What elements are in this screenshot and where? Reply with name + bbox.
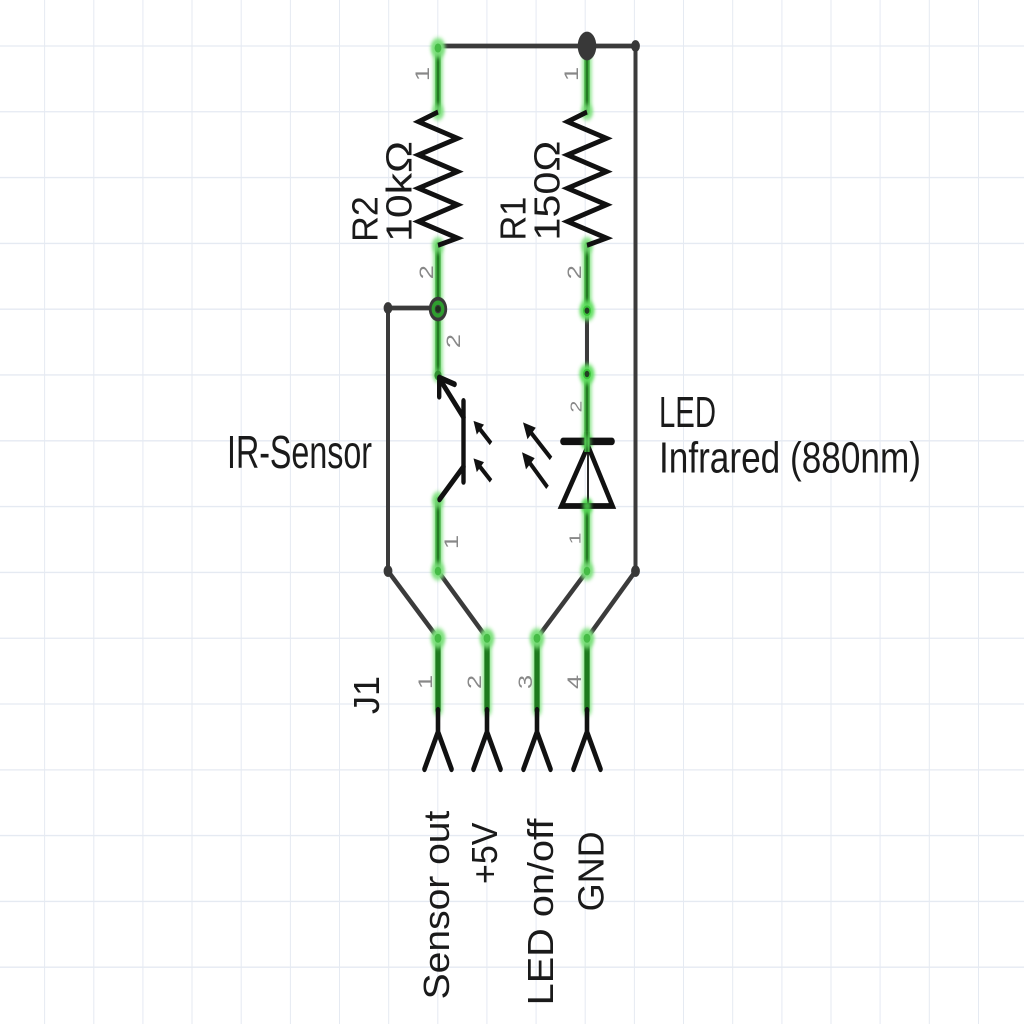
- wire: GND rail diagonal to J1 pin 4: [587, 571, 636, 638]
- wire: sensor-out left vertical: [386, 308, 390, 571]
- svg-text:150Ω: 150Ω: [527, 141, 567, 241]
- glow J1 pin3 top: [530, 628, 545, 648]
- glow R2 pin1 top: [431, 38, 446, 58]
- LED D1 symbol: [562, 432, 613, 512]
- wire centre line LED pin2: [586, 375, 588, 443]
- wire R2 pin1 lead halo: [433, 47, 443, 112]
- wire: right vertical GND rail: [634, 46, 638, 571]
- glow LED bend bottom: [580, 562, 594, 580]
- wire R2 pin1 lead (green net): [435, 47, 440, 112]
- svg-text:1: 1: [412, 67, 433, 81]
- triangle: [562, 446, 613, 506]
- wire: sensor emitter diagonal to J1 pin 2: [438, 571, 487, 638]
- wire J1 pin3 lead halo: [532, 638, 542, 710]
- junction big dot on top rail: [578, 32, 597, 61]
- wire J1 pin4 lead (green net): [584, 638, 589, 710]
- svg-text:+5V: +5V: [465, 822, 505, 884]
- wire J1 pin2 lead halo: [482, 638, 492, 710]
- svg-text:1: 1: [566, 532, 584, 544]
- glow LED cathode pin: [581, 435, 592, 450]
- bendpoint dot left of node A: [384, 302, 393, 314]
- svg-text:3: 3: [515, 675, 536, 689]
- wire node A to sensor pin2 (green net): [435, 309, 440, 375]
- glow at cathode crossing: [582, 436, 591, 448]
- svg-text:Sensor out: Sensor out: [417, 810, 457, 999]
- svg-text:2: 2: [443, 334, 464, 348]
- glow R2 bottom lead: [432, 237, 444, 253]
- collector diagonal: [440, 467, 464, 500]
- resistor R2 zigzag: [419, 112, 458, 245]
- glow LED anode pin: [581, 499, 592, 514]
- green endpoint glows: [431, 38, 595, 648]
- svg-text:2: 2: [567, 401, 585, 413]
- glow J1 pin2 top: [480, 628, 495, 648]
- wire centre line sensor pin1: [437, 500, 439, 571]
- J1 pin 2 connector fork: [474, 710, 501, 769]
- glow junction dot above LED upper: [579, 301, 594, 321]
- svg-text:1: 1: [415, 675, 436, 689]
- svg-text:2: 2: [464, 675, 485, 689]
- wire R2 pin2 lead to node A (green net): [435, 245, 440, 309]
- photon arrows out of LED: [522, 422, 551, 487]
- svg-text:4: 4: [564, 675, 585, 689]
- green net wires (core layer): [438, 47, 587, 710]
- svg-text:J1: J1: [347, 676, 387, 714]
- pin number labels (gray): [412, 67, 585, 689]
- wire J1 pin3 lead (green net): [534, 638, 539, 710]
- wire LED pin1 lead halo: [582, 506, 592, 571]
- resistor R1 zigzag: [568, 112, 607, 245]
- wire: gray segment between junction dots above LED: [585, 311, 589, 374]
- wire sensor pin1 lead (green net): [435, 500, 440, 571]
- svg-text:1: 1: [441, 535, 462, 549]
- svg-text:Infrared (880nm): Infrared (880nm): [659, 434, 921, 483]
- node A junction (dark ring with green centre): [429, 297, 447, 322]
- svg-text:LED on/off: LED on/off: [521, 818, 561, 1005]
- green net wires (dark centre line): [438, 47, 587, 571]
- wire sensor pin2 lead halo: [433, 309, 443, 375]
- glow at anode base crossing: [583, 500, 592, 512]
- wire: sensor-out horizontal stub from node A: [388, 306, 437, 310]
- J1 pin 4 connector fork: [574, 710, 601, 769]
- wire: LED anode diagonal to J1 pin 3: [537, 571, 587, 638]
- J1 pin 1 connector fork: [425, 710, 452, 769]
- wire centre line sensor pin2: [437, 309, 439, 375]
- glow J1 pin1 top: [431, 628, 446, 648]
- cathode bar: [563, 439, 612, 445]
- wire J1 pin1 lead (green net): [435, 638, 440, 710]
- glow R1 bottom lead: [581, 237, 593, 253]
- wire centre line R1 pin2: [586, 245, 588, 310]
- transistor Q1 phototransistor symbol: [439, 378, 463, 500]
- green net wires (halo layer): [438, 47, 587, 710]
- wire LED pin2 lead halo: [582, 375, 592, 443]
- base bar: [461, 401, 465, 482]
- svg-text:GND: GND: [571, 831, 611, 911]
- wire R1 pin2 lead halo: [582, 245, 592, 310]
- svg-text:10kΩ: 10kΩ: [379, 141, 419, 242]
- wire R1 pin1 lead halo: [582, 48, 592, 112]
- svg-text:LED: LED: [659, 389, 716, 438]
- glow R2 top lead: [432, 104, 444, 120]
- svg-text:2: 2: [416, 265, 437, 279]
- glow junction dot above LED lower: [579, 364, 594, 384]
- svg-text:IR-Sensor: IR-Sensor: [227, 426, 372, 478]
- glow sensor bend bottom: [431, 562, 445, 580]
- glow sensor top pin: [433, 369, 443, 382]
- wire R2 pin2 lead halo: [433, 245, 443, 309]
- svg-text:1: 1: [561, 67, 582, 81]
- wire R1 pin2 lead (green net): [584, 245, 589, 310]
- wire centre line R1 pin1: [586, 48, 588, 112]
- wire LED pin2 lead (green net): [584, 375, 589, 443]
- emitter diagonal with arrow: [440, 379, 464, 418]
- glow sensor bottom pin: [432, 492, 444, 508]
- internal thin wire: [587, 446, 589, 505]
- wire J1 pin1 lead halo: [433, 638, 443, 710]
- J1 pin 3 connector fork: [524, 710, 551, 769]
- wire LED pin1 lead (green net): [584, 506, 589, 571]
- wire centre line LED pin1: [586, 506, 588, 571]
- wire crossing over cathode bar: [584, 432, 589, 452]
- wire sensor pin1 lead halo: [433, 500, 443, 571]
- wire: top horizontal net (R2.1 to R1.1 to GND rail): [437, 44, 636, 48]
- glow J1 pin4 top: [580, 628, 595, 648]
- wire J1 pin4 lead halo: [582, 638, 592, 710]
- bendpoint dot right bottom: [631, 565, 640, 577]
- bendpoint dot top-right corner: [631, 40, 640, 52]
- wire R1 pin1 lead (green net): [584, 48, 589, 112]
- J1 pin stubs and forks: [425, 710, 601, 769]
- wire J1 pin2 lead (green net): [484, 638, 489, 710]
- glow R1 top lead: [581, 104, 593, 120]
- wire centre line R2 pin2: [437, 245, 439, 309]
- photon arrows into sensor: [474, 421, 492, 481]
- wire centre line R2 pin1: [437, 47, 439, 112]
- wire: left diagonal to J1 pin 1: [388, 571, 438, 638]
- svg-text:2: 2: [564, 265, 585, 279]
- bendpoint dot left bottom: [384, 565, 393, 577]
